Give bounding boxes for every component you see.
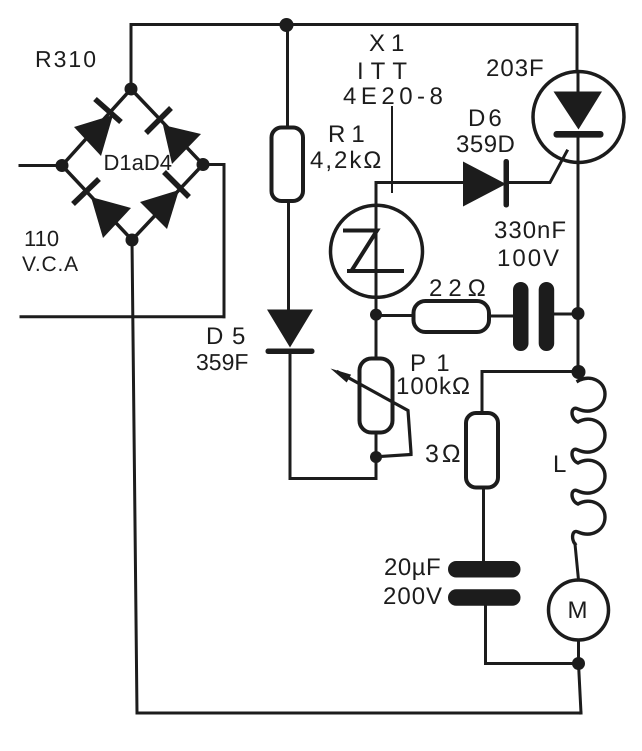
potentiometer P1 body: [360, 359, 393, 433]
svg-text:4,2kΩ: 4,2kΩ: [310, 147, 383, 174]
svg-text:R310: R310: [35, 46, 98, 72]
svg-text:200V: 200V: [383, 583, 443, 610]
wire top rail: [131, 23, 577, 26]
node dot bridge left: [56, 159, 69, 172]
wire Z top lead and D6 anode: [376, 183, 463, 206]
node dot bridge bottom: [126, 234, 139, 247]
diode D1 cathode bar: [95, 99, 121, 122]
wire 22ohm to 330nF: [489, 315, 513, 318]
svg-text:20µF: 20µF: [384, 554, 441, 581]
wire right bridge node to right then down: [203, 165, 224, 317]
node dot 3ohm rail: [572, 365, 586, 379]
wire 3ohm to 20uF: [482, 488, 485, 562]
inductor L: [572, 378, 605, 544]
node dot Z bottom: [370, 309, 382, 321]
capacitor 20uF top plate: [448, 561, 521, 578]
svg-text:ITT: ITT: [357, 58, 414, 85]
svg-text:100V: 100V: [497, 245, 561, 272]
X1 label pointer line: [391, 107, 393, 192]
wire motor bottom to rail: [579, 640, 582, 713]
diode D4 (bottom-node to right-node) triangle: [140, 190, 179, 229]
wire coil bottom to motor top: [575, 544, 579, 580]
node dot pot bottom: [370, 451, 382, 463]
diode D5 triangle: [267, 310, 313, 348]
resistor R1: [272, 128, 304, 202]
diode bridge D1aD4 arms: [62, 89, 203, 240]
SCR cathode bar: [554, 131, 604, 138]
svg-text:D6: D6: [468, 105, 505, 132]
diode D3 (bottom-node to left-node) triangle: [91, 197, 131, 238]
svg-text:110: 110: [24, 226, 59, 251]
diode D6 triangle: [463, 162, 506, 207]
resistor 3ohm: [466, 413, 498, 488]
wire 330nF to rail: [554, 313, 578, 316]
svg-text:X1: X1: [369, 30, 410, 57]
wire R1 to D5: [287, 201, 290, 309]
wire left AC lead: [20, 164, 62, 167]
trigger device X1 circle: [331, 205, 423, 297]
svg-text:L: L: [553, 451, 568, 478]
diode D2 (right-node to top-node) triangle: [163, 125, 201, 164]
wire right rail mid segment: [577, 163, 580, 372]
diode D4 cathode bar: [164, 172, 189, 197]
X1 internal vertical lead: [375, 206, 378, 298]
svg-text:3Ω: 3Ω: [425, 440, 464, 468]
wire bridge top node to rail: [130, 25, 133, 90]
wire bridge bottom node down to bottom rail: [132, 240, 137, 713]
resistor 22ohm: [414, 301, 490, 332]
node dot bridge top: [125, 83, 138, 96]
svg-text:D 5: D 5: [206, 323, 246, 350]
motor M circle: [549, 580, 609, 640]
svg-text:203F: 203F: [486, 55, 545, 82]
wire D5 down and right to pot bottom: [290, 352, 376, 479]
capacitor 20uF bottom plate: [448, 589, 521, 606]
diode D1 (left-node to top-node) triangle: [74, 115, 113, 156]
capacitor 330nF right plate: [539, 282, 555, 351]
svg-text:M: M: [568, 597, 590, 624]
svg-text:D1aD4: D1aD4: [104, 150, 172, 175]
wire Z bottom to pot top: [375, 298, 378, 359]
svg-text:V.C.A: V.C.A: [22, 253, 79, 276]
svg-text:22Ω: 22Ω: [429, 275, 492, 302]
node dot 330nF rail: [572, 307, 585, 320]
node dot bridge right: [197, 158, 210, 171]
wire pot bottom lead: [375, 433, 378, 479]
diode D5 cathode bar: [266, 349, 315, 355]
potentiometer wiper arrowhead: [331, 369, 352, 383]
wire 20uF down to motor node: [486, 606, 579, 664]
wire Z node to 22ohm: [376, 314, 414, 317]
svg-text:4E20-8: 4E20-8: [343, 83, 447, 110]
svg-text:359F: 359F: [196, 349, 248, 375]
SCR internal cathode lead: [577, 138, 580, 163]
diode D2 cathode bar: [146, 108, 171, 133]
wire bottom AC lead: [21, 315, 224, 318]
svg-text:330nF: 330nF: [494, 217, 567, 244]
node dot top rail: [280, 18, 294, 32]
wire R1 branch top: [286, 25, 289, 128]
svg-text:359D: 359D: [456, 131, 515, 158]
diode D3 cathode bar: [73, 179, 99, 204]
node dot motor bottom: [572, 657, 585, 670]
SCR 203F circle: [533, 72, 624, 163]
diode D6 cathode bar: [504, 159, 510, 208]
potentiometer wiper path to bottom node: [338, 372, 411, 457]
wire D6 cathode to SCR gate: [509, 151, 567, 183]
svg-text:100kΩ: 100kΩ: [396, 373, 471, 400]
capacitor 330nF left plate: [513, 282, 529, 351]
wire right rail top segment: [576, 25, 579, 72]
wire 3ohm top to rail: [482, 372, 578, 414]
SCR internal triangle: [554, 92, 603, 130]
SCR internal anode lead: [577, 72, 580, 92]
X1 Z symbol: [345, 231, 402, 272]
svg-text:R1: R1: [328, 121, 371, 148]
wire bottom rail: [137, 712, 581, 715]
